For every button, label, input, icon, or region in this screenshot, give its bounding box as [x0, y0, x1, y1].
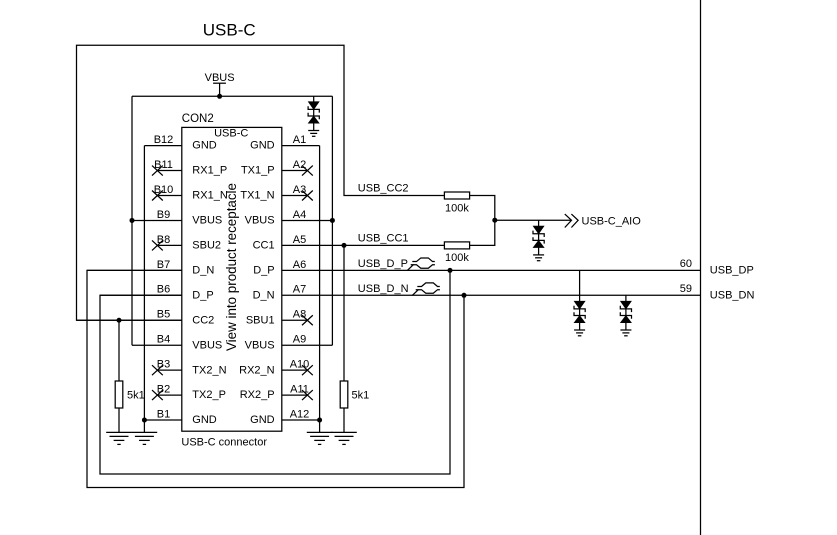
pin B7 (D_N) [87, 269, 182, 271]
svg-text:A10: A10 [290, 359, 310, 371]
connector CON2 body [182, 127, 282, 431]
svg-text:B6: B6 [157, 284, 170, 296]
junction B1 GND [142, 418, 147, 423]
svg-text:A6: A6 [293, 259, 306, 271]
svg-text:GND: GND [192, 140, 217, 152]
pin B5 (CC2) [77, 319, 182, 321]
svg-text:TX1_P: TX1_P [241, 165, 275, 177]
wire VBUS rail right [331, 96, 333, 345]
svg-text:A7: A7 [293, 284, 306, 296]
pin A12 (GND) [282, 419, 320, 421]
svg-text:RX1_P: RX1_P [192, 165, 227, 177]
svg-text:SBU2: SBU2 [192, 240, 221, 252]
pin A4 (VBUS) [282, 219, 333, 221]
svg-text:B10: B10 [154, 184, 174, 196]
svg-text:VBUS: VBUS [192, 339, 222, 351]
svg-text:D_N: D_N [192, 264, 214, 276]
svg-text:VBUS: VBUS [192, 215, 222, 227]
junction D_N bottom loop [462, 293, 467, 298]
svg-text:D_P: D_P [192, 289, 213, 301]
TVS diode D2 (CC AIO ESD) [538, 220, 540, 226]
svg-text:VBUS: VBUS [245, 215, 275, 227]
svg-text:USB_CC2: USB_CC2 [358, 183, 409, 195]
junction VBUS on top wire [217, 94, 222, 99]
svg-text:CC1: CC1 [253, 240, 275, 252]
svg-text:GND: GND [192, 414, 217, 426]
ground GND right rail [307, 431, 333, 433]
svg-text:TX2_P: TX2_P [192, 389, 226, 401]
svg-text:A5: A5 [293, 234, 306, 246]
wire D_N loop (B7 to bottom) [87, 270, 464, 487]
TVS diode D1 (VBUS ESD) [313, 96, 315, 102]
svg-text:100k: 100k [445, 202, 469, 214]
junction B5 / R2 5k1 [117, 318, 122, 323]
wire CC2 loop (B5 left-up-over) [77, 45, 445, 320]
junction D_P bottom loop [448, 268, 453, 273]
svg-text:B2: B2 [157, 384, 170, 396]
TVS diode D4 (D_N ESD) [625, 295, 627, 301]
svg-text:B12: B12 [154, 134, 174, 146]
ground R2 [106, 431, 132, 433]
pin A1 (GND) [282, 145, 320, 147]
pin A3 (TX1_N) [282, 195, 308, 197]
junction A12 GND [317, 418, 322, 423]
wire node to USB-C_AIO [495, 219, 572, 221]
svg-text:CC2: CC2 [192, 314, 214, 326]
junction B9 VBUS [130, 218, 135, 223]
ground R4 [331, 431, 357, 433]
svg-text:View into product receptacle: View into product receptacle [224, 183, 239, 351]
pin B4 (VBUS) [132, 344, 182, 346]
ground GND left rail [132, 431, 158, 433]
svg-text:A9: A9 [293, 334, 306, 346]
junction A4 VBUS [330, 218, 335, 223]
svg-text:100k: 100k [445, 252, 469, 264]
resistor R3 100k (CC2) [444, 192, 469, 199]
svg-text:5k1: 5k1 [352, 389, 370, 401]
svg-text:A11: A11 [290, 384, 309, 396]
pin A5 (CC1) [282, 244, 445, 246]
junction 100k common node [492, 218, 497, 223]
svg-text:B11: B11 [154, 159, 173, 171]
svg-text:A1: A1 [293, 134, 306, 146]
svg-text:B1: B1 [157, 408, 170, 420]
pin B10 (RX1_N) [157, 195, 181, 197]
svg-text:B5: B5 [157, 309, 170, 321]
resistor R4 5k1 (CC1 pulldown) [343, 245, 345, 381]
pin A9 (VBUS) [282, 344, 333, 346]
svg-text:USB_DP: USB_DP [710, 265, 754, 277]
TVS diode D3 (D_P ESD) [579, 270, 581, 301]
pin A2 (TX1_P) [282, 170, 308, 172]
svg-text:B3: B3 [157, 359, 170, 371]
svg-text:USB-C connector: USB-C connector [181, 437, 267, 449]
svg-text:A4: A4 [293, 209, 306, 221]
svg-text:CON2: CON2 [182, 113, 214, 125]
pin A11 (RX2_P) [282, 394, 308, 396]
svg-text:TX2_N: TX2_N [192, 364, 226, 376]
wire VBUS top [132, 95, 332, 97]
junction CC1 / R4 5k1 [342, 243, 347, 248]
svg-text:A3: A3 [293, 184, 306, 196]
IC U1 edge [700, 0, 702, 535]
wire D_P loop (B6 to bottom) [100, 270, 450, 474]
svg-text:TX1_N: TX1_N [240, 190, 274, 202]
resistor R5 100k (CC1) [444, 242, 469, 249]
svg-text:VBUS: VBUS [205, 72, 235, 84]
svg-text:60: 60 [680, 258, 692, 270]
svg-text:GND: GND [250, 140, 275, 152]
svg-text:RX2_P: RX2_P [240, 389, 275, 401]
pin B11 (RX1_P) [157, 170, 181, 172]
off-page connector USB-C_AIO [565, 214, 578, 227]
svg-text:B8: B8 [157, 234, 170, 246]
pin B3 (TX2_N) [157, 369, 181, 371]
svg-text:RX1_N: RX1_N [192, 190, 228, 202]
pin B6 (D_P) [100, 294, 182, 296]
net tie squiggle USB_D_N [412, 289, 419, 295]
wire GND rail right (A1-A12) [319, 146, 321, 433]
svg-text:GND: GND [250, 414, 275, 426]
pin A10 (RX2_N) [282, 369, 308, 371]
svg-text:USB_CC1: USB_CC1 [358, 233, 409, 245]
svg-text:D_P: D_P [253, 264, 274, 276]
pin B2 (TX2_P) [157, 394, 181, 396]
pin B12 (GND) [144, 145, 181, 147]
wire GND rail left (B12-B1) [143, 146, 145, 433]
pin B1 (GND) [144, 419, 181, 421]
resistor R2 5k1 (CC2 pulldown) [118, 320, 120, 381]
svg-text:A12: A12 [290, 408, 310, 420]
pin A7 (D_N) [282, 294, 701, 296]
pin A6 (D_P) [282, 269, 701, 271]
svg-text:RX2_N: RX2_N [239, 364, 275, 376]
pin A8 (SBU1) [282, 319, 308, 321]
svg-text:B4: B4 [157, 334, 170, 346]
svg-text:USB-C_AIO: USB-C_AIO [582, 215, 642, 227]
svg-text:5k1: 5k1 [127, 389, 145, 401]
svg-text:D_N: D_N [253, 289, 275, 301]
svg-text:USB_D_P: USB_D_P [358, 258, 408, 270]
svg-text:USB-C: USB-C [203, 20, 256, 39]
svg-text:B7: B7 [157, 259, 170, 271]
svg-text:USB_D_N: USB_D_N [358, 283, 409, 295]
wire R3 to node [470, 196, 495, 246]
svg-text:59: 59 [680, 283, 692, 295]
pin B9 (VBUS) [132, 219, 182, 221]
svg-text:USB_DN: USB_DN [710, 290, 755, 302]
svg-text:B9: B9 [157, 209, 170, 221]
net tie squiggle USB_D_P [407, 264, 414, 270]
svg-text:A2: A2 [293, 159, 306, 171]
svg-text:SBU1: SBU1 [246, 314, 275, 326]
pin B8 (SBU2) [157, 244, 181, 246]
wire VBUS rail left [131, 96, 133, 345]
svg-text:USB-C: USB-C [214, 127, 248, 139]
svg-text:A8: A8 [293, 309, 306, 321]
svg-text:VBUS: VBUS [245, 339, 275, 351]
